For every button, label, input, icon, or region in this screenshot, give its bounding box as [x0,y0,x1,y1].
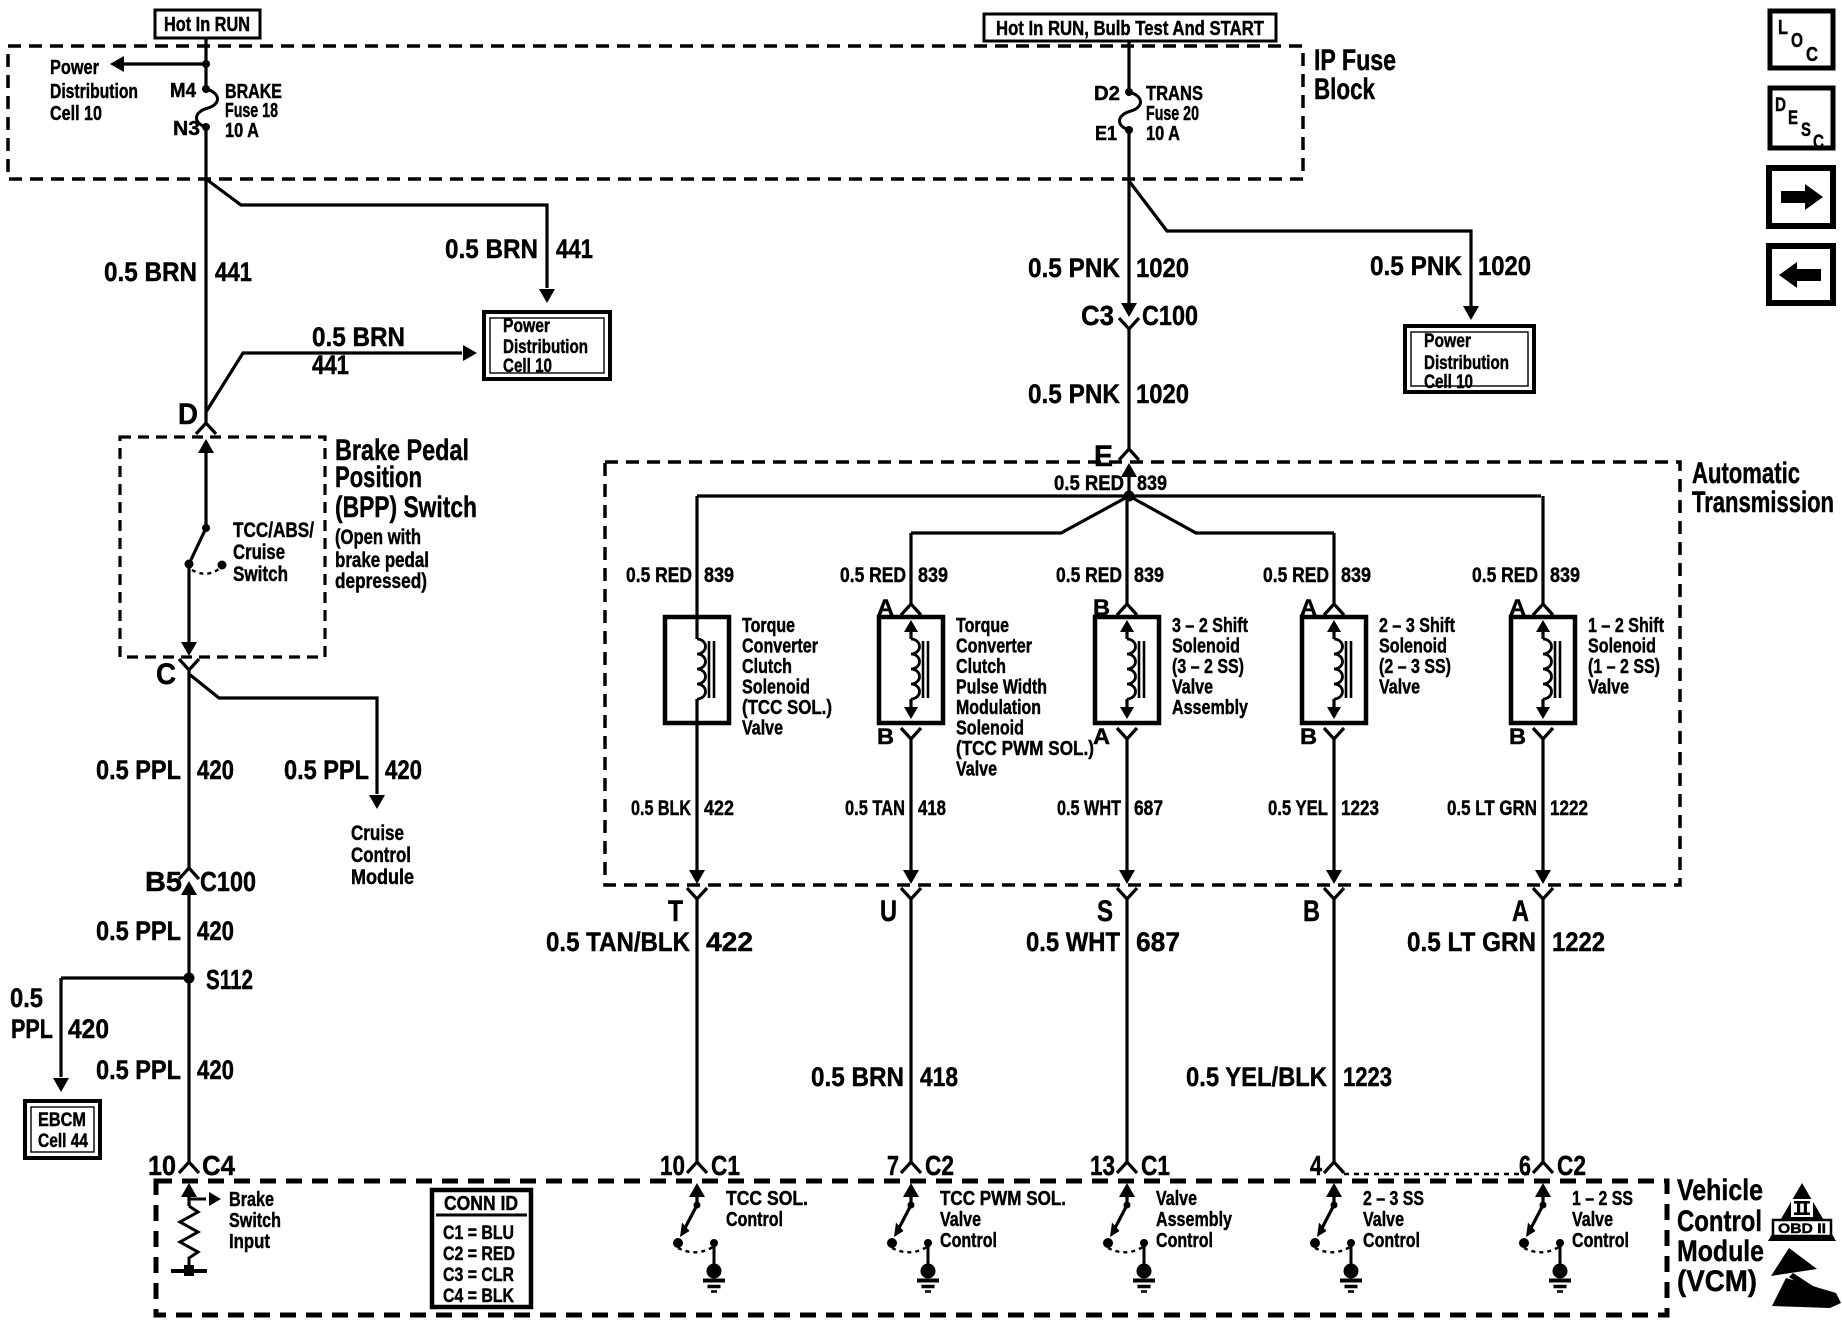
label 0.5 YEL 1223 (channel 4) [1268,797,1379,820]
splice S112 [184,964,254,995]
svg-text:(3 – 2 SS): (3 – 2 SS) [1172,656,1244,678]
svg-text:C100: C100 [1142,300,1198,331]
svg-text:B: B [1303,895,1320,928]
svg-text:Valve: Valve [1572,1209,1613,1231]
svg-text:1020: 1020 [1478,251,1531,281]
label 0.5 LT GRN 1222 (harness) [1407,927,1605,957]
svg-text:687: 687 [1134,797,1163,820]
wire: fuse N3 down to node D [204,127,207,422]
svg-text:C2: C2 [925,1150,954,1181]
svg-text:422: 422 [704,797,734,820]
Vehicle Control Module (VCM) title [1677,1174,1764,1298]
svg-text:Control: Control [940,1230,997,1252]
connector S (transmission) [1097,888,1137,928]
wire: channel 5 drop to solenoid [1541,496,1544,603]
svg-text:TCC/ABS/: TCC/ABS/ [233,519,314,542]
svg-text:Clutch: Clutch [742,656,792,678]
svg-text:839: 839 [1134,564,1164,587]
connector 4 (VCM) [1310,1150,1344,1181]
wire: C100 down to node E [1127,329,1130,449]
connector A (transmission) [1512,888,1553,928]
svg-text:C3: C3 [1081,300,1114,331]
connector C3 C100 [1081,300,1198,331]
svg-text:420: 420 [197,755,234,785]
svg-text:Converter: Converter [742,636,818,658]
wire: C down to connector B5 [187,670,190,869]
wire: connector A down to VCM [1541,899,1544,1162]
pin B (top of solenoid 3) [1093,595,1137,620]
pin B (bottom of solenoid 4) [1300,724,1344,749]
svg-text:CONN ID: CONN ID [444,1193,518,1215]
svg-text:Power: Power [50,57,99,79]
svg-text:839: 839 [918,564,948,587]
icon OBD II warning triangle [1768,1183,1836,1241]
svg-text:687: 687 [1136,927,1180,957]
svg-text:Control: Control [726,1209,783,1231]
icon ESD warning triangle [1771,1248,1841,1308]
svg-text:Cell 10: Cell 10 [503,356,552,377]
svg-text:TCC SOL.: TCC SOL. [726,1188,808,1210]
svg-text:Valve: Valve [1156,1188,1197,1210]
svg-text:L: L [1778,17,1788,39]
svg-text:Control: Control [1156,1230,1213,1252]
svg-text:Cruise: Cruise [233,541,285,564]
svg-text:2 – 3 Shift: 2 – 3 Shift [1379,615,1455,637]
node E connector [1094,440,1139,496]
label 0.5 TAN/BLK 422 (harness) [546,927,753,957]
label "Hot In RUN" [155,10,260,38]
svg-text:0.5 RED: 0.5 RED [1472,564,1538,587]
svg-text:418: 418 [920,1062,958,1092]
svg-text:Valve: Valve [742,718,783,740]
Brake Pedal Position (BPP) Switch title [335,434,477,593]
ground (channel 4) [1340,1246,1362,1292]
svg-text:Input: Input [229,1231,270,1253]
svg-text:Switch: Switch [233,563,288,586]
connector 6 C2 (VCM) [1519,1150,1586,1181]
label 0.5 RED 839 (channel 4) [1263,564,1371,587]
svg-text:C3 = CLR: C3 = CLR [443,1265,514,1286]
label 0.5 RED 839 (top) [1054,472,1167,495]
label 0.5 PPL 420 (above B5) [96,755,234,785]
connector T (transmission) [668,888,707,928]
svg-text:C: C [1813,132,1824,153]
svg-text:0.5 RED: 0.5 RED [1056,564,1122,587]
svg-text:(TCC SOL.): (TCC SOL.) [742,697,832,719]
svg-text:Valve: Valve [940,1209,981,1231]
label 0.5 LT GRN 1222 (channel 5) [1447,797,1588,820]
brake switch input resistor [171,1183,281,1276]
reference: Power Distribution Cell 10 (top left) [50,57,138,125]
svg-text:Pulse Width: Pulse Width [956,677,1047,699]
splice node RED 839 [1124,491,1135,502]
svg-text:M4: M4 [170,80,197,102]
svg-text:C1: C1 [711,1150,740,1181]
label 0.5 PPL 420 (cruise branch) [284,755,422,785]
svg-text:Valve: Valve [1172,677,1213,699]
svg-text:Hot In RUN, Bulb Test And STAR: Hot In RUN, Bulb Test And START [996,18,1264,40]
svg-text:Solenoid: Solenoid [1588,636,1656,658]
wire: S112 down to connector C4 [187,978,190,1162]
svg-text:Valve: Valve [1588,677,1629,699]
svg-text:1020: 1020 [1136,253,1189,283]
svg-text:0.5 RED: 0.5 RED [1054,472,1124,495]
svg-text:1 – 2 Shift: 1 – 2 Shift [1588,615,1664,637]
svg-text:0.5 LT GRN: 0.5 LT GRN [1407,927,1536,957]
wire: fuse E1 down to connector C3 [1127,130,1130,304]
VCM channel label (channel 4) [1363,1188,1424,1252]
svg-text:Valve: Valve [1363,1209,1404,1231]
svg-text:0.5 WHT: 0.5 WHT [1026,927,1120,957]
svg-text:Cell 44: Cell 44 [38,1131,88,1152]
svg-text:0.5 TAN: 0.5 TAN [845,797,905,820]
icon arrow left [1769,246,1833,303]
wire: Hot In RUN label to fuse M4 [204,38,207,89]
svg-text:Block: Block [1314,73,1375,106]
svg-text:C4: C4 [202,1150,235,1181]
svg-text:839: 839 [1550,564,1580,587]
solenoid coil box (channel 3) [1095,617,1159,723]
svg-text:3 – 2 Shift: 3 – 2 Shift [1172,615,1248,637]
svg-text:O: O [1791,30,1803,52]
svg-text:Transmission: Transmission [1692,486,1834,519]
wire: branch to Cruise Control Module [189,674,385,809]
solenoid label (channel 3) [1172,615,1249,719]
svg-text:10 A: 10 A [1146,123,1180,145]
svg-text:EBCM: EBCM [38,1110,86,1131]
svg-text:Solenoid: Solenoid [1379,636,1447,658]
VCM channel label (channel 2) [940,1188,1066,1252]
svg-text:Power: Power [1424,331,1471,352]
svg-text:0.5 BRN: 0.5 BRN [811,1062,904,1092]
pin A (top of solenoid 2) [877,595,921,620]
label 0.5 PNK 1020 (below C100) [1028,379,1189,409]
wire: label to fuse D2 [1127,41,1130,92]
icon arrow right [1769,168,1833,226]
svg-text:Solenoid: Solenoid [742,677,810,699]
svg-text:1222: 1222 [1550,797,1588,820]
svg-text:OBD II: OBD II [1778,1220,1826,1236]
icon LOC [1770,11,1833,68]
svg-text:0.5 TAN/BLK: 0.5 TAN/BLK [546,927,690,957]
Power Distribution Cell 10 box (upper) [484,312,610,379]
svg-text:0.5 PPL: 0.5 PPL [284,755,369,785]
svg-text:839: 839 [1341,564,1371,587]
svg-text:C100: C100 [200,866,256,897]
svg-text:B: B [1509,724,1526,749]
svg-text:1223: 1223 [1343,1062,1392,1092]
svg-text:Distribution: Distribution [50,81,138,103]
svg-text:TCC PWM SOL.: TCC PWM SOL. [940,1188,1066,1210]
connector 10 C1 (VCM) [660,1150,740,1181]
svg-text:E1: E1 [1095,123,1117,145]
label 0.5 PNK 1020 (above C100) [1028,253,1189,283]
svg-text:0.5 YEL/BLK: 0.5 YEL/BLK [1186,1062,1327,1092]
svg-text:C4 = BLK: C4 = BLK [443,1286,514,1307]
label 0.5 PPL 420 (below B5) [96,916,234,946]
pin B (bottom of solenoid 5) [1509,724,1553,749]
svg-text:S112: S112 [206,964,253,995]
svg-text:Control: Control [351,844,411,867]
svg-text:Module: Module [1677,1235,1764,1268]
svg-text:0.5 PPL: 0.5 PPL [96,1055,181,1085]
label 0.5 RED 839 (channel 2) [840,564,948,587]
connector B (transmission) [1303,888,1344,928]
svg-text:(VCM): (VCM) [1677,1265,1757,1298]
svg-text:0.5 BRN: 0.5 BRN [445,234,538,264]
wire: S112 branch to EBCM [53,978,189,1092]
svg-text:C2: C2 [1557,1150,1586,1181]
svg-text:422: 422 [706,927,753,957]
svg-text:B: B [877,724,894,749]
svg-text:441: 441 [215,257,252,287]
solenoid coil box (channel 4) [1302,617,1366,723]
pin A (top of solenoid 5) [1509,595,1553,620]
svg-text:T: T [668,895,683,928]
VCM driver switch (channel 2) [887,1183,932,1252]
IP Fuse Block title [1314,44,1396,106]
fuse TRANS Fuse 20 10 A [1094,83,1203,145]
VCM channel label (channel 1) [726,1188,808,1231]
connector link between pins 4 and 6 [1344,1173,1533,1175]
svg-text:Torque: Torque [956,615,1009,637]
solenoid coil box (channel 5) [1511,617,1575,723]
solenoid label (channel 1) [742,615,832,740]
svg-text:0.5: 0.5 [10,983,43,1013]
label 0.5 RED 839 (channel 3) [1056,564,1164,587]
svg-text:(1 – 2 SS): (1 – 2 SS) [1588,656,1660,678]
label 0.5 PPL 420 (EBCM branch) [10,983,109,1044]
svg-text:Cell 10: Cell 10 [1424,372,1473,393]
wire: branch to Power Distribution (right) [1129,181,1479,320]
svg-text:839: 839 [1137,472,1167,495]
Vehicle Control Module boundary [156,1181,1667,1315]
TCC/ABS/Cruise switch [185,519,315,586]
svg-text:B: B [1300,724,1317,749]
svg-text:0.5 PPL: 0.5 PPL [96,916,181,946]
wire: fan-out horizontal [697,494,1541,497]
svg-text:420: 420 [68,1014,109,1044]
svg-text:Fuse 20: Fuse 20 [1146,103,1199,125]
svg-text:0.5 PNK: 0.5 PNK [1370,251,1462,281]
svg-text:C2 = RED: C2 = RED [443,1244,515,1265]
Brake Pedal Position switch boundary [120,437,325,657]
svg-text:Brake: Brake [229,1189,274,1211]
svg-text:S: S [1097,895,1113,928]
svg-text:4: 4 [1310,1150,1322,1181]
label 0.5 BRN 441 (upper branch) [445,234,593,264]
ground (channel 1) [703,1246,725,1292]
VCM channel label (channel 5) [1572,1188,1633,1252]
solenoid label (channel 5) [1588,615,1664,699]
svg-text:1223: 1223 [1341,797,1379,820]
wire: connector S down to VCM [1125,899,1128,1162]
connector 10 C4 [148,1150,235,1181]
svg-text:0.5 PPL: 0.5 PPL [96,755,181,785]
svg-text:Module: Module [351,866,414,889]
VCM driver switch (channel 1) [673,1183,718,1252]
svg-text:(Open with: (Open with [335,526,421,549]
label 0.5 RED 839 (channel 5) [1472,564,1580,587]
svg-text:Vehicle: Vehicle [1677,1174,1763,1207]
wire: channel 3 drop to solenoid [1125,496,1128,603]
svg-text:C: C [156,658,176,691]
svg-text:0.5 LT GRN: 0.5 LT GRN [1447,797,1537,820]
Power Distribution Cell 10 box (right) [1405,326,1534,393]
EBCM Cell 44 box [25,1101,100,1158]
svg-text:E: E [1788,108,1798,129]
solenoid coil box (channel 2) [879,617,943,723]
label "Hot In RUN, Bulb Test And START" [984,14,1276,41]
icon DESC [1770,88,1833,153]
svg-text:Assembly: Assembly [1156,1209,1233,1231]
svg-text:E: E [1094,440,1113,473]
wire: fan diagonal to channel 2 [911,496,1129,533]
wire: solenoid 4 to transmission edge [1326,738,1342,884]
label 0.5 BLK 422 (channel 1) [631,797,734,820]
label 0.5 BRN 441 (main left) [104,257,252,287]
svg-text:Distribution: Distribution [503,337,588,358]
label 0.5 PNK 1020 (right branch) [1370,251,1531,281]
svg-text:Hot In RUN: Hot In RUN [164,14,250,36]
svg-text:Cruise: Cruise [351,822,404,845]
svg-text:A: A [1512,895,1529,928]
VCM driver switch (channel 3) [1103,1183,1148,1252]
svg-text:0.5 RED: 0.5 RED [626,564,692,587]
svg-text:Switch: Switch [229,1210,281,1232]
svg-text:Fuse 18: Fuse 18 [225,100,278,122]
wire: feed to Power Distribution (left arrow) [110,56,210,72]
wire: solenoid 2 to transmission edge [903,738,919,884]
svg-text:Clutch: Clutch [956,656,1006,678]
svg-text:D: D [178,398,198,431]
svg-text:0.5 PNK: 0.5 PNK [1028,379,1120,409]
ground (channel 2) [917,1246,939,1292]
svg-text:depressed): depressed) [335,570,427,593]
svg-text:10 A: 10 A [225,120,259,142]
svg-text:Cell 10: Cell 10 [50,103,102,125]
svg-text:D2: D2 [1094,83,1120,105]
wire: fan diagonal to channel 4 [1129,496,1334,533]
svg-text:Control: Control [1677,1205,1762,1238]
svg-text:N3: N3 [173,118,200,140]
svg-text:Converter: Converter [956,636,1032,658]
svg-text:839: 839 [704,564,734,587]
svg-text:S: S [1801,120,1811,141]
wire: solenoid 1 to transmission edge [689,723,705,884]
svg-text:441: 441 [556,234,593,264]
wire: channel 2 drop to solenoid [909,533,912,603]
connector 13 C1 (VCM) [1090,1150,1170,1181]
svg-text:brake pedal: brake pedal [335,549,429,572]
wire: solenoid 5 to transmission edge [1535,738,1551,884]
wire: branch to Power Distribution box (upper) [206,179,555,303]
svg-text:B5: B5 [145,866,182,897]
VCM driver switch (channel 5) [1519,1183,1564,1252]
solenoid coil box (channel 1) [665,617,729,723]
svg-text:0.5 RED: 0.5 RED [840,564,906,587]
reference: Cruise Control Module [351,822,414,889]
label 0.5 YEL/BLK 1223 (harness) [1186,1062,1392,1092]
wire: B5 to splice S112 [187,888,190,978]
svg-text:441: 441 [312,350,349,380]
svg-text:C1: C1 [1141,1150,1170,1181]
svg-text:Valve: Valve [956,759,997,781]
connector B5 C100 [145,866,256,897]
svg-text:Modulation: Modulation [956,697,1041,719]
svg-text:1020: 1020 [1136,379,1189,409]
wire: branch from D to Power Distribution (arrow right) [206,345,477,412]
wire: connector B down to VCM [1332,899,1335,1162]
pin A (top of solenoid 4) [1300,595,1344,620]
svg-text:(TCC PWM SOL.): (TCC PWM SOL.) [956,738,1094,760]
svg-text:Valve: Valve [1379,677,1420,699]
svg-text:0.5 BLK: 0.5 BLK [631,797,691,820]
pin B (bottom of solenoid 2) [877,724,921,749]
svg-text:1222: 1222 [1552,927,1605,957]
solenoid label (channel 2) [956,615,1094,781]
svg-text:13: 13 [1090,1150,1115,1181]
ground (channel 5) [1549,1246,1571,1292]
wire: channel 1 drop to solenoid [695,496,698,617]
svg-text:420: 420 [385,755,422,785]
ground (channel 3) [1133,1246,1155,1292]
wire: connector T down to VCM [695,899,698,1162]
label 0.5 WHT 687 (harness) [1026,927,1180,957]
svg-text:C: C [1806,44,1818,66]
Automatic Transmission title [1692,457,1834,519]
svg-text:Solenoid: Solenoid [1172,636,1240,658]
VCM driver switch (channel 4) [1310,1183,1355,1252]
svg-text:0.5 BRN: 0.5 BRN [312,322,405,352]
label 0.5 WHT 687 (channel 3) [1057,797,1163,820]
svg-text:418: 418 [918,797,946,820]
connector 7 C2 (VCM) [887,1150,954,1181]
label 0.5 RED 839 (channel 1) [626,564,734,587]
svg-text:420: 420 [197,1055,234,1085]
svg-text:0.5 YEL: 0.5 YEL [1268,797,1328,820]
svg-text:0.5 BRN: 0.5 BRN [104,257,197,287]
wire: connector U down to VCM [909,899,912,1162]
svg-text:Distribution: Distribution [1424,353,1509,374]
svg-text:0.5 PNK: 0.5 PNK [1028,253,1120,283]
label 0.5 BRN 418 (harness) [811,1062,958,1092]
label 0.5 TAN 418 (channel 2) [845,797,946,820]
label 0.5 BRN 441 (lower branch, two lines) [312,322,405,380]
svg-text:Position: Position [335,461,422,494]
svg-text:Solenoid: Solenoid [956,718,1024,740]
CONN ID table [432,1190,531,1307]
VCM channel label (channel 3) [1156,1188,1233,1252]
svg-text:C1 = BLU: C1 = BLU [443,1223,514,1244]
node D connector [178,398,216,528]
svg-text:D: D [1775,95,1786,116]
wire: solenoid 3 to transmission edge [1119,738,1135,884]
svg-text:6: 6 [1519,1150,1531,1181]
svg-text:7: 7 [887,1150,899,1181]
wire: switch to node C [181,564,197,656]
IP Fuse Block boundary [8,46,1303,179]
svg-text:10: 10 [148,1150,176,1181]
label 0.5 PPL 420 (lower) [96,1055,234,1085]
svg-text:2 – 3 SS: 2 – 3 SS [1363,1188,1424,1210]
svg-text:1 – 2 SS: 1 – 2 SS [1572,1188,1633,1210]
svg-text:(2 – 3 SS): (2 – 3 SS) [1379,656,1451,678]
svg-text:TRANS: TRANS [1146,83,1203,105]
svg-text:Torque: Torque [742,615,795,637]
svg-text:PPL: PPL [11,1014,53,1044]
svg-text:10: 10 [660,1150,685,1181]
